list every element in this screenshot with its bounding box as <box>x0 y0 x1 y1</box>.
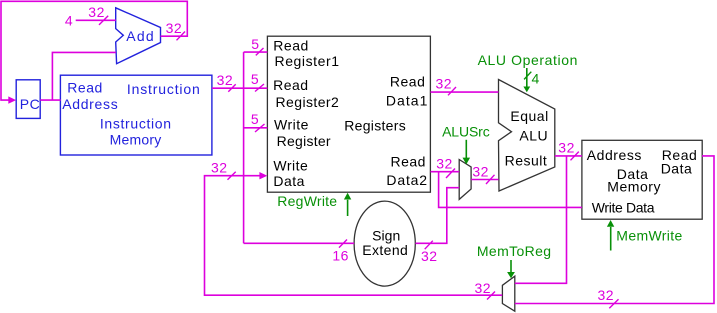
control RegWrite arrow <box>344 193 351 216</box>
svg-text:Sign: Sign <box>372 227 401 243</box>
wire PC to instruction memory <box>40 99 60 101</box>
wire MemToReg mux output writeback to Registers Write Data <box>205 176 503 296</box>
svg-text:Data1: Data1 <box>386 92 428 108</box>
label 5 on Read Register2 wire <box>251 71 264 92</box>
svg-text:32: 32 <box>436 156 453 172</box>
label 32 on ALU Result wire <box>558 140 579 161</box>
svg-text:32: 32 <box>472 164 489 180</box>
svg-text:Address: Address <box>587 147 642 163</box>
svg-text:Write: Write <box>274 117 309 133</box>
svg-text:5: 5 <box>251 71 259 87</box>
svg-text:Register1: Register1 <box>275 53 340 69</box>
arrowhead into Registers Write Data <box>259 172 267 179</box>
svg-text:ALU: ALU <box>519 128 548 144</box>
svg-text:MemWrite: MemWrite <box>616 228 683 244</box>
label 32 on constant-4 wire <box>88 4 108 25</box>
label 32 on ALUSrc mux output <box>472 164 494 185</box>
svg-text:Write: Write <box>273 157 308 173</box>
wire Read Data2 branch to Data Memory Write Data <box>439 172 582 208</box>
svg-text:32: 32 <box>217 72 234 88</box>
svg-text:Register2: Register2 <box>276 94 340 110</box>
label 32 on Read Data loop wire <box>598 287 619 308</box>
arrowhead into PC <box>8 96 16 103</box>
wire Add output loop to PC input <box>1 1 187 100</box>
label 32 on Add output <box>166 20 185 40</box>
svg-text:Extend: Extend <box>362 242 408 258</box>
wire to Read Register1 <box>244 51 268 53</box>
registers file box <box>267 36 430 192</box>
wire Read Data1 to ALU <box>431 91 499 93</box>
svg-text:Registers: Registers <box>344 118 406 134</box>
svg-text:Read: Read <box>67 80 102 96</box>
svg-text:32: 32 <box>598 287 615 303</box>
label 32 on Read Data2 wire <box>436 156 455 178</box>
svg-text:16: 16 <box>332 248 349 264</box>
svg-text:Data: Data <box>661 161 693 177</box>
label 4 on ALU Operation control <box>524 71 540 87</box>
wire instruction bus vertical <box>243 52 245 243</box>
PC register box <box>16 80 40 119</box>
label 16 on Sign Extend input <box>332 240 349 264</box>
svg-text:Data: Data <box>273 173 305 189</box>
svg-text:Write Data: Write Data <box>592 200 655 216</box>
svg-text:MemToReg: MemToReg <box>477 243 552 259</box>
label 32 on instruction bus <box>217 72 236 92</box>
label 32 on MemToReg mux output <box>475 280 496 299</box>
svg-text:32: 32 <box>88 4 105 20</box>
svg-text:32: 32 <box>558 140 575 156</box>
svg-text:5: 5 <box>251 111 259 127</box>
svg-text:RegWrite: RegWrite <box>277 193 337 209</box>
mux MemToReg <box>502 276 514 311</box>
data memory box <box>582 140 702 219</box>
svg-text:Memory: Memory <box>607 179 661 195</box>
svg-text:32: 32 <box>475 280 492 296</box>
wire ALUSrc mux output to ALU <box>471 179 499 181</box>
wire 16-bit immediate to Sign Extend <box>244 242 355 244</box>
svg-text:Read: Read <box>390 73 425 89</box>
wire Read Data2 to ALUSrc mux upper input <box>431 171 460 173</box>
svg-text:ALUSrc: ALUSrc <box>442 124 490 140</box>
wire Sign Extend output to ALUSrc mux lower input <box>415 188 459 244</box>
label 5 on Write Register wire <box>251 111 265 132</box>
svg-text:Read: Read <box>273 77 308 93</box>
control MemToReg arrow <box>507 260 515 278</box>
control ALU Operation arrow <box>523 68 530 92</box>
control ALUSrc arrow <box>463 140 471 165</box>
wire constant 4 into Add <box>76 19 116 21</box>
label 32 on Read Data1 wire <box>436 76 457 96</box>
svg-text:Memory: Memory <box>110 132 162 148</box>
wire Data Memory Read Data loop to MemToReg mux lower input <box>515 156 714 304</box>
svg-text:Instruction: Instruction <box>127 81 200 97</box>
label 5 on Read Register1 wire <box>251 36 263 56</box>
label 32 on writeback wire into Write Data <box>211 160 236 180</box>
svg-text:Address: Address <box>62 96 118 112</box>
svg-text:Data2: Data2 <box>386 172 427 188</box>
svg-text:32: 32 <box>421 248 438 264</box>
svg-text:ALU Operation: ALU Operation <box>478 52 578 68</box>
wire to Write Register <box>244 127 268 129</box>
svg-text:4: 4 <box>65 13 73 29</box>
svg-text:Instruction: Instruction <box>100 115 172 131</box>
svg-text:Result: Result <box>505 153 548 169</box>
sign extend ellipse <box>354 201 415 286</box>
svg-text:Register: Register <box>277 133 332 149</box>
svg-text:Read: Read <box>391 153 426 169</box>
mux ALUSrc <box>459 160 471 200</box>
adder Add <box>116 8 161 64</box>
label 32 on Sign Extend output <box>421 241 438 264</box>
svg-text:Equal: Equal <box>510 108 548 124</box>
svg-text:Add: Add <box>126 28 154 44</box>
svg-text:5: 5 <box>251 36 259 52</box>
instruction memory box <box>60 75 212 155</box>
svg-text:4: 4 <box>532 71 540 87</box>
wire ALU Result to Data Memory Address <box>555 155 582 157</box>
control MemWrite arrow <box>607 220 614 251</box>
svg-text:32: 32 <box>166 20 183 36</box>
wire instruction bus IM to Read Register2 <box>212 87 268 89</box>
svg-text:32: 32 <box>436 76 453 92</box>
wire junction PC-out up to Add lower input <box>52 52 116 100</box>
ALU (Equal / ALU / Result) <box>499 80 555 192</box>
svg-text:32: 32 <box>211 160 228 176</box>
svg-text:Read: Read <box>273 37 308 53</box>
svg-text:PC: PC <box>20 96 40 112</box>
wire ALU Result branch down to MemToReg mux upper input <box>515 156 567 283</box>
